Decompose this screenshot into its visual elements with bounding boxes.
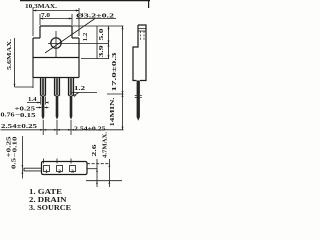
- svg-text:Ø3.2±0.2: Ø3.2±0.2: [76, 13, 114, 20]
- front view left ledge: [33, 37, 40, 39]
- mounting hole: [51, 38, 61, 48]
- hole vertical center line: [55, 31, 57, 57]
- extension line hole center right: [48, 43, 109, 45]
- dim 10.3 extension left: [32, 8, 34, 36]
- lead 3 wide part: [69, 78, 74, 96]
- svg-text:2.54±0.25: 2.54±0.25: [74, 125, 106, 132]
- pitch arrowheads: [40, 129, 43, 131]
- pin 3 square: [70, 166, 76, 172]
- dim 7.0 extension left: [39, 14, 41, 25]
- extension line body boundary right: [81, 58, 109, 60]
- svg-text:1: 1: [45, 169, 48, 175]
- lead 2 center extension: [56, 120, 58, 135]
- page border corner tick: [148, 0, 150, 8]
- dim 5.6 line: [14, 38, 16, 87]
- svg-text:5.6MAX.: 5.6MAX.: [6, 39, 13, 70]
- dim 10.3 extension right: [78, 8, 80, 36]
- svg-text:1.2: 1.2: [74, 85, 85, 92]
- svg-text:14MIN.: 14MIN.: [109, 97, 116, 127]
- svg-text:−0.10: −0.10: [13, 137, 19, 158]
- 4.7 arrowheads: [109, 164, 111, 167]
- svg-text:10.3MAX.: 10.3MAX.: [25, 3, 57, 10]
- dim 2.6 top reference: [87, 168, 98, 170]
- svg-text:2.54±0.25: 2.54±0.25: [1, 123, 38, 130]
- dim 2.6 line: [96, 159, 98, 187]
- pin 1 square: [44, 166, 50, 172]
- 10.3 arrows: [33, 10, 36, 12]
- front view body right edge: [78, 38, 80, 78]
- svg-text:2: 2: [58, 169, 61, 175]
- side view lead shoulder ticks: [135, 96, 142, 98]
- svg-text:−0.15: −0.15: [15, 112, 36, 119]
- pin center ticks into bottom view: [44, 159, 72, 164]
- svg-text:2.6: 2.6: [91, 143, 98, 156]
- lead 1 wide part: [41, 78, 46, 96]
- dim 17.0/14 line: [122, 26, 124, 130]
- arrowheads: [14, 10, 124, 184]
- pitch dim line: [1, 129, 124, 131]
- 0.5 arrowheads: [22, 165, 24, 168]
- 1.4 arrowheads: [38, 102, 41, 104]
- dim 5.0/3.9 line: [108, 26, 110, 59]
- 7.0 arrows: [40, 18, 43, 20]
- front view tab top edge: [40, 25, 72, 27]
- lead 1 narrow part (solid): [42, 96, 45, 120]
- dim 10.3 line: [33, 10, 79, 12]
- 0.76 arrowheads: [39, 107, 42, 109]
- lead 3 center ridge: [70, 78, 73, 95]
- svg-text:1.4: 1.4: [28, 96, 37, 103]
- svg-text:7.0: 7.0: [41, 12, 50, 19]
- svg-text:0.76: 0.76: [1, 112, 16, 119]
- dim 5.0/3.9 inner vertical: [96, 26, 98, 59]
- 5.0/3.9 arrows: [108, 26, 110, 29]
- dim 7.0 line: [40, 18, 72, 20]
- extension line tab top right: [72, 25, 124, 27]
- hole label underline: [76, 18, 116, 20]
- lead 3 narrow part (solid): [70, 96, 73, 120]
- lead 2 narrow part (solid): [56, 96, 59, 120]
- svg-text:2. DRAIN: 2. DRAIN: [29, 196, 67, 204]
- body edge extension for 5.6 dim: [32, 78, 34, 89]
- svg-text:1. GATE: 1. GATE: [29, 188, 62, 196]
- lead 3 center extension: [70, 120, 72, 135]
- svg-text:17.0±0.3: 17.0±0.3: [111, 51, 118, 91]
- 5.6 arrowhead: [14, 84, 16, 87]
- dim 1.4 underline: [27, 102, 49, 104]
- svg-text:3.9: 3.9: [98, 44, 105, 57]
- 1.2 arrowhead: [74, 95, 77, 97]
- front view tab right edge: [71, 26, 73, 38]
- svg-text:4.7MAX.: 4.7MAX.: [102, 132, 109, 158]
- hole leader line: [45, 19, 95, 54]
- dim 7.0 extension right: [71, 14, 73, 25]
- svg-text:5.0: 5.0: [98, 29, 105, 41]
- svg-text:3: 3: [71, 169, 74, 175]
- lead 2 center ridge: [56, 78, 59, 95]
- lead 2 wide part: [55, 78, 60, 96]
- svg-text:0.5: 0.5: [11, 157, 18, 169]
- svg-text:1.2: 1.2: [83, 33, 89, 42]
- dim 1.2 underline: [71, 92, 97, 94]
- pin 2 square: [57, 166, 63, 172]
- side view hidden hole edges: [141, 31, 145, 41]
- front view right ledge: [72, 37, 79, 39]
- lead 1 center extension: [42, 120, 44, 135]
- seating reference line: [86, 180, 122, 182]
- dim 1.2 arrow line: [75, 93, 80, 96]
- dim 5.6 bottom reference: [15, 86, 34, 88]
- side view outline: [133, 25, 146, 81]
- page border top: [20, 0, 150, 2]
- dim 0.5 line: [21, 136, 23, 179]
- dim 17.0/14 extension shoulder: [107, 93, 124, 95]
- lead 1 center ridge: [42, 78, 45, 95]
- front view body bottom edge: [33, 77, 79, 79]
- dim 0.76 arrows: [36, 107, 49, 109]
- 17.0/14 arrows: [122, 26, 124, 29]
- front view tab/body boundary line: [33, 57, 79, 59]
- bottom view tab bar: [24, 168, 42, 171]
- lead 1 edge extension ticks: [41, 97, 46, 105]
- svg-text:3. SOURCE: 3. SOURCE: [29, 204, 71, 212]
- dim 4.7 line: [108, 159, 110, 187]
- front view tab left edge: [39, 26, 41, 38]
- dim 4.7 top reference: [87, 163, 110, 165]
- side view hole section lines: [138, 29, 146, 32]
- 2.6 arrowheads: [96, 169, 98, 172]
- front view body left edge: [32, 38, 34, 78]
- bottom view body: [42, 162, 88, 175]
- side view lead (solid): [137, 81, 140, 121]
